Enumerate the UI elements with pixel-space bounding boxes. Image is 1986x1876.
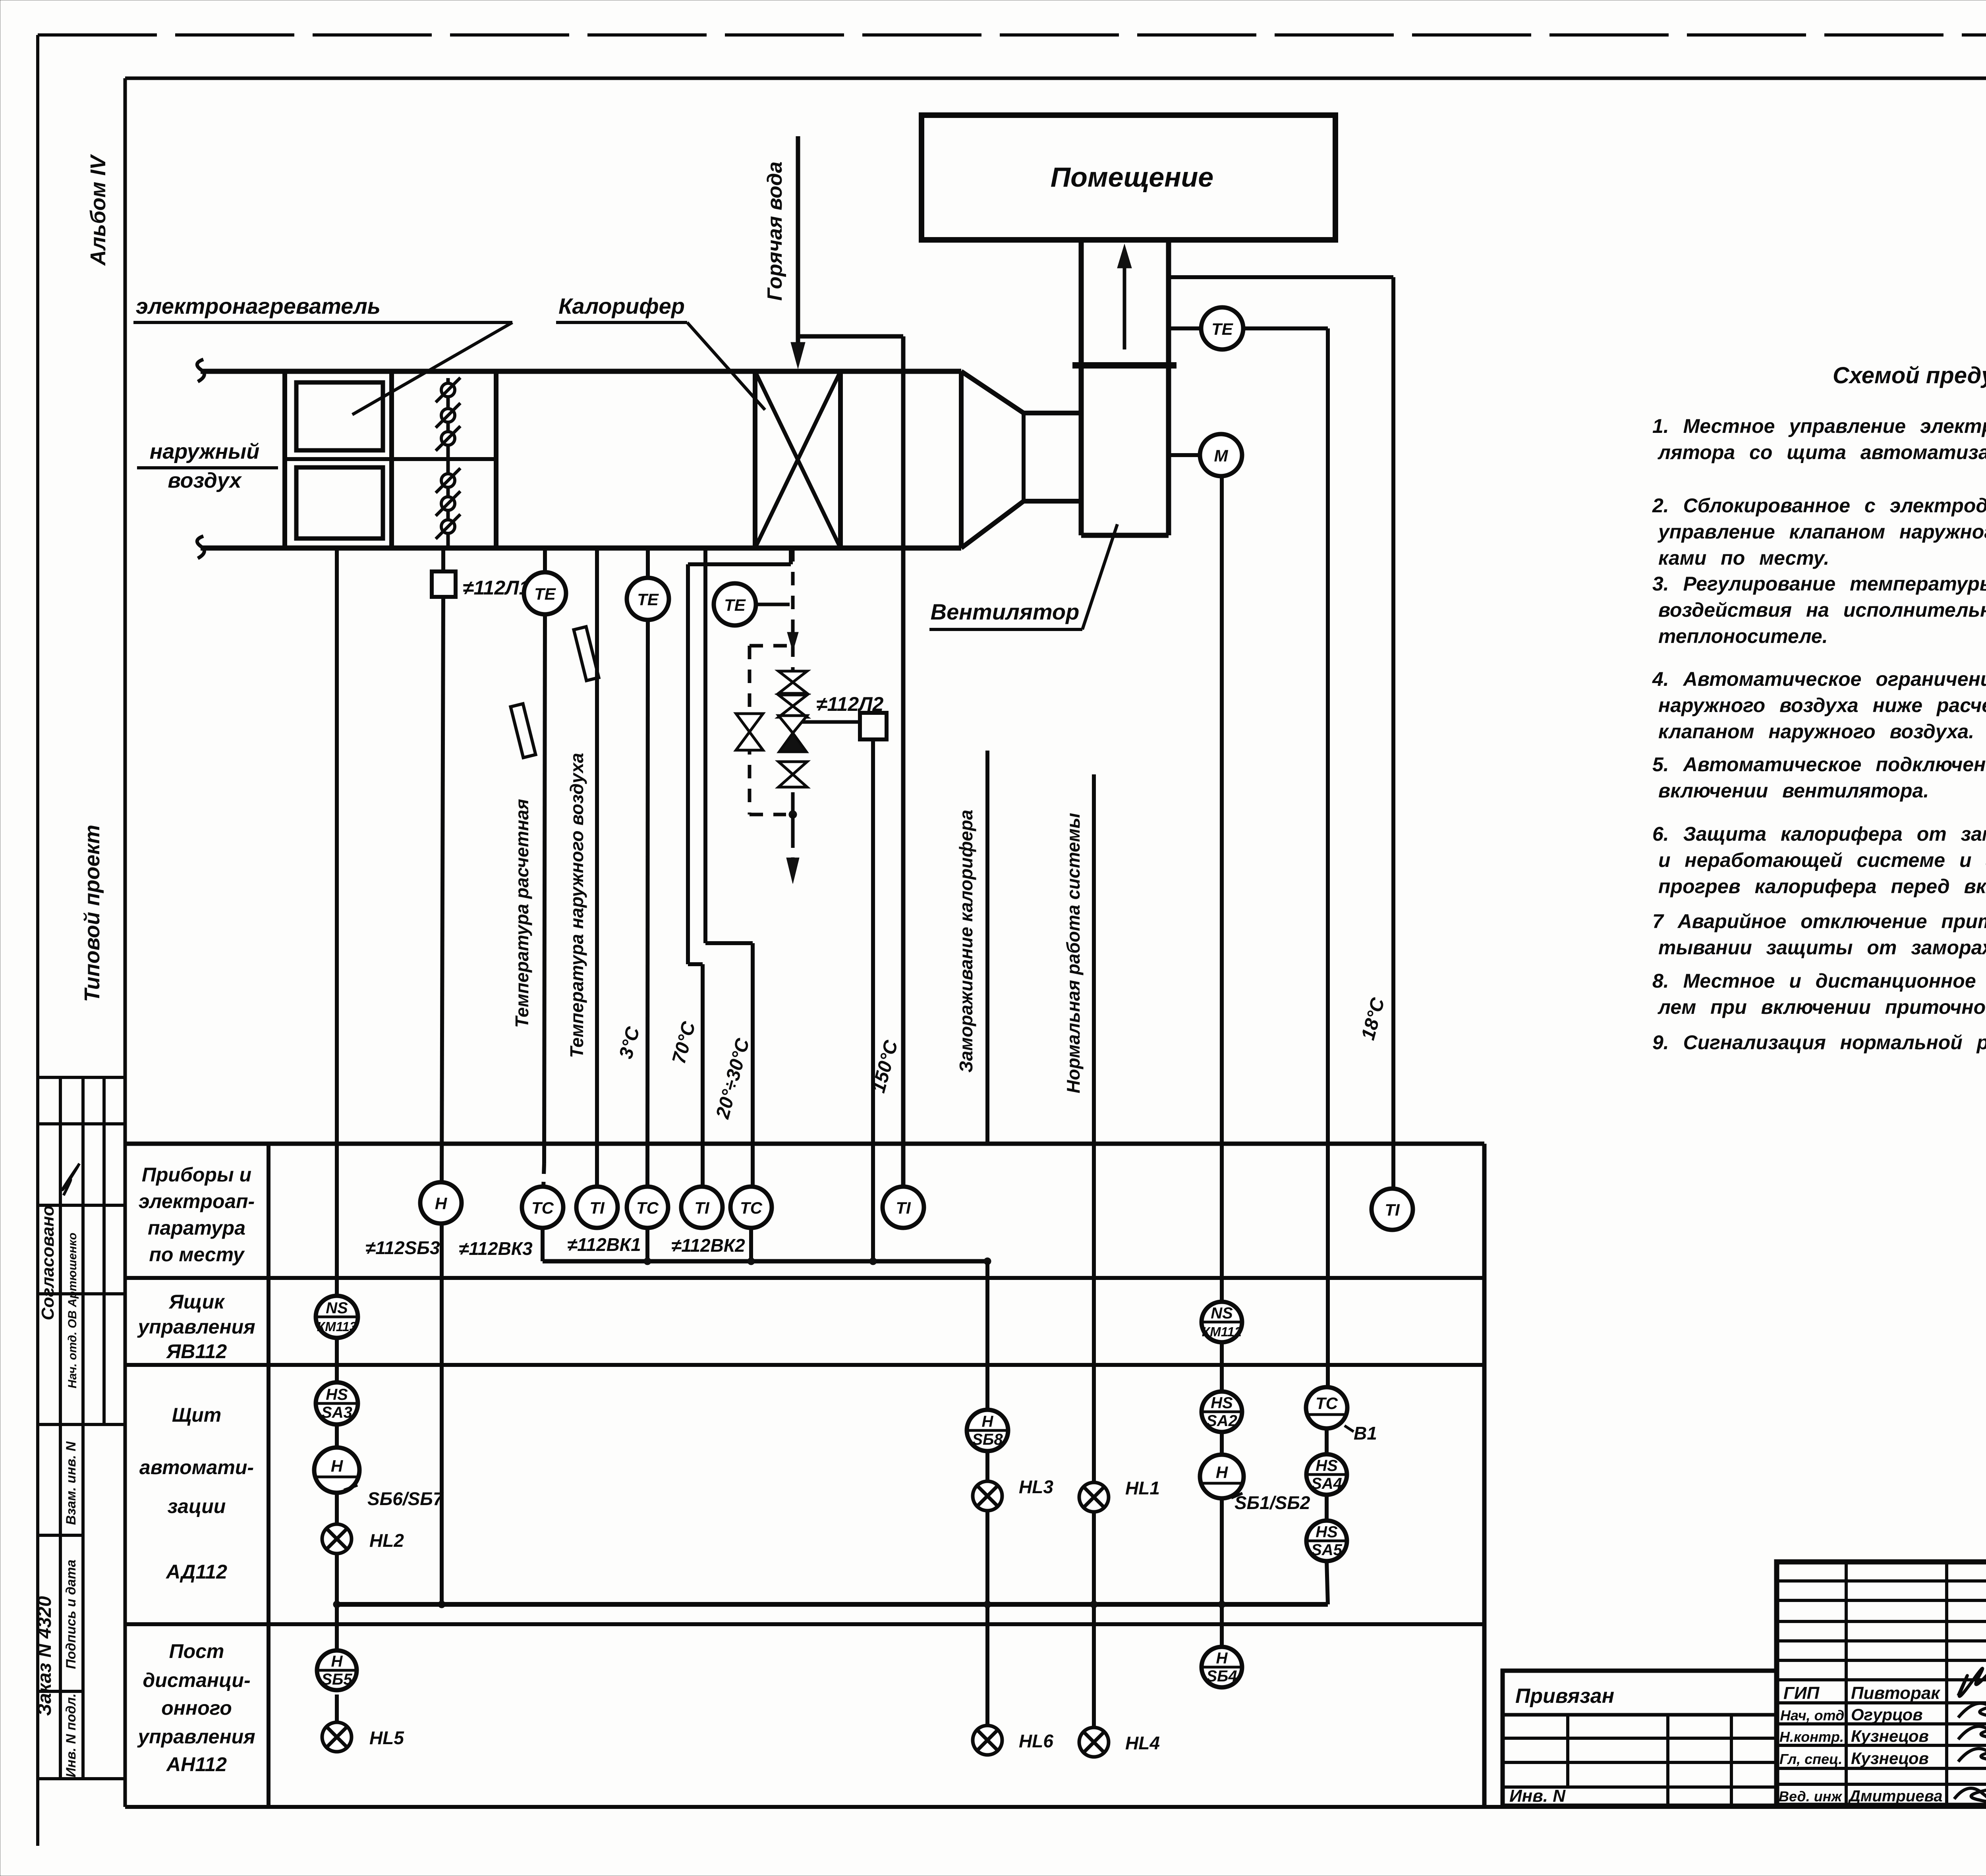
lamp HL1 (1079, 1482, 1109, 1512)
damper blade symbol 1 (436, 378, 460, 402)
duct end wall before fan (959, 371, 964, 548)
room (Pomeshchenie) box (922, 115, 1335, 240)
title grid line (1777, 1701, 1986, 1704)
air damper axis line (446, 378, 450, 548)
sensor TE1 (design temperature) (524, 572, 566, 614)
main bus junction (438, 1601, 445, 1608)
row line 2-3 (125, 1363, 1484, 1367)
main bus left junction (333, 1601, 340, 1608)
buttons H SB1/SB2 (1200, 1455, 1244, 1498)
fan inlet cone end (1022, 413, 1026, 501)
chord for H SB1/SB2 (1201, 1482, 1243, 1485)
svg-text:дистанци-: дистанци- (143, 1669, 250, 1691)
svg-text:HS: HS (1316, 1523, 1338, 1541)
electric heater element lower (296, 467, 383, 538)
normal work line (1092, 1144, 1096, 1482)
svg-text:SБ8: SБ8 (972, 1431, 1003, 1448)
TE1 dashed tail (543, 1164, 544, 1187)
starter NS KM112 (1202, 1302, 1242, 1342)
svg-text:Дмитриева: Дмитриева (1848, 1787, 1942, 1805)
svg-text:ками по месту.: ками по месту. (1658, 547, 1829, 569)
sheet outer left border (36, 35, 39, 1846)
svg-text:Н.контр.: Н.контр. (1779, 1729, 1844, 1745)
svg-text:Нач. отд. ОВ Артюшенко: Нач. отд. ОВ Артюшенко (66, 1233, 79, 1388)
svg-text:Н: Н (331, 1457, 344, 1475)
svg-text:автомати-: автомати- (139, 1456, 254, 1478)
svg-text:управление клапаном наружн: управление клапаном наружного воздуха и … (1657, 521, 1986, 543)
duct top wall (201, 369, 961, 374)
svg-text:ТС: ТС (740, 1199, 763, 1217)
svg-text:≠112ВК3: ≠112ВК3 (459, 1238, 533, 1259)
electric heater casing (285, 371, 392, 548)
lamp HL5 (322, 1722, 352, 1752)
fan motor M (1200, 434, 1242, 476)
svg-text:4. Автоматическое ограничение: 4. Автоматическое ограничение расхода те… (1652, 668, 1986, 690)
svg-text:7 Аварийное отключение прит: 7 Аварийное отключение приточного вентил… (1652, 910, 1986, 932)
svg-text:Заказ N 4320: Заказ N 4320 (34, 1596, 55, 1716)
svg-text:9. Сигнализация нормальной р: 9. Сигнализация нормальной работы приточ… (1652, 1031, 1986, 1054)
TE2 line down (647, 620, 648, 1186)
table label column divider (267, 1144, 270, 1807)
svg-text:Схемой предусматривается:: Схемой предусматривается: (1833, 363, 1986, 388)
switch HS SA3 (316, 1382, 358, 1424)
title grid line (1777, 1783, 1986, 1786)
underline elektronagrevatel (133, 321, 512, 324)
button H SB5 (317, 1650, 357, 1690)
thermostat TC 112BK1 (627, 1187, 668, 1228)
valve V2 (779, 695, 807, 717)
title grid line (1777, 1579, 1986, 1583)
manifold outlet dashed arrow (791, 836, 795, 864)
svg-text:прогрев калорифера перед вк: прогрев калорифера перед включением вент… (1658, 875, 1986, 897)
electric heater control line down (335, 548, 339, 1296)
svg-text:Инв. N подл.: Инв. N подл. (64, 1693, 79, 1778)
inner frame top (125, 77, 1986, 80)
leader Ventilyator (1082, 524, 1117, 629)
svg-text:Помещение: Помещение (1051, 162, 1213, 193)
svg-text:включении вентилятора.: включении вентилятора. (1658, 780, 1929, 802)
svg-text:Ящик: Ящик (168, 1291, 225, 1313)
svg-text:HL6: HL6 (1019, 1731, 1053, 1751)
svg-text:SБ1/SБ2: SБ1/SБ2 (1234, 1492, 1310, 1513)
title block main frame (1777, 1562, 1986, 1805)
title grid line (1777, 1722, 1986, 1725)
dashed line arrowhead (787, 632, 798, 651)
leader SB6/SB7 (344, 1485, 357, 1490)
svg-text:клапаном наружного воздуха.: клапаном наружного воздуха. (1658, 720, 1974, 743)
control valve with actuator (779, 716, 807, 733)
svg-text:SБ5: SБ5 (321, 1671, 352, 1688)
main horizontal bus (337, 1602, 1328, 1607)
svg-text:5. Автоматическое подключени: 5. Автоматическое подключение системы ре… (1652, 753, 1986, 776)
fan inlet duct top (1024, 411, 1081, 415)
svg-text:≠112ВК1: ≠112ВК1 (567, 1234, 641, 1255)
svg-text:1. Местное управление электр: 1. Местное управление электродвигателем … (1652, 415, 1986, 437)
stamp grid line (38, 1534, 83, 1537)
20-30C jog (705, 941, 753, 945)
svg-text:воздух: воздух (168, 469, 242, 492)
thermometer TI 150C (883, 1187, 924, 1228)
svg-text:Н: Н (1216, 1463, 1229, 1482)
leader SB1/SB2 (1231, 1493, 1242, 1498)
stamp grid divider (81, 1424, 85, 1779)
bypass top dashed (750, 644, 793, 648)
svg-text:теплоносителе.: теплоносителе. (1658, 625, 1828, 647)
lamp HL4 (1079, 1727, 1109, 1757)
svg-text:лем при включении приточно: лем при включении приточного вентилятора… (1658, 996, 1986, 1018)
title grid line (1777, 1659, 1986, 1662)
leader Kalorifer (687, 322, 765, 410)
title grid line (1777, 1639, 1986, 1642)
pushbutton H 112SB3 (420, 1182, 462, 1224)
motor control line down (1220, 476, 1224, 1302)
svg-text:Н: Н (435, 1194, 448, 1213)
stamp grid line (38, 1292, 125, 1295)
stamp grid line (38, 1777, 125, 1780)
svg-text:8. Местное и дистанционное: 8. Местное и дистанционное управление эл… (1652, 970, 1986, 992)
title grid line (1777, 1599, 1986, 1602)
112SB3 line to main bus (440, 1224, 444, 1604)
TE room line down to TC B1 (1326, 328, 1330, 1387)
svg-text:Нач, отд: Нач, отд (1780, 1707, 1844, 1724)
20-30C vertical 2 (751, 943, 755, 1186)
svg-text:SA2: SA2 (1206, 1412, 1237, 1430)
svg-text:Калорифер: Калорифер (558, 293, 685, 318)
wire TE to drop (1243, 326, 1328, 330)
stamp grid line (38, 1076, 125, 1079)
electric heater element upper (296, 382, 383, 450)
valve V1 (779, 671, 807, 693)
underline naruzhny (137, 466, 278, 469)
damper blade symbol 2 (436, 403, 460, 428)
svg-text:ТI: ТI (694, 1199, 710, 1217)
title grid divider (1845, 1562, 1848, 1805)
outdoor air temp line (595, 548, 599, 1186)
svg-text:Вентилятор: Вентилятор (931, 599, 1080, 624)
leader B1 (1345, 1426, 1354, 1432)
svg-text:HL4: HL4 (1125, 1733, 1160, 1753)
stamp grid divider (81, 1077, 85, 1424)
wire (335, 1338, 339, 1382)
freeze column line / underline (985, 751, 989, 1144)
svg-text:Согласовано: Согласовано (38, 1205, 58, 1320)
fan inlet cone top (961, 371, 1024, 413)
bus corner junction (984, 1258, 991, 1265)
svg-text:Привязан: Привязан (1515, 1685, 1614, 1708)
stamp grid line (38, 1423, 125, 1426)
sheet outer top border (dashed scan) (38, 33, 1986, 37)
svg-text:Замораживание калорифера: Замораживание калорифера (956, 810, 976, 1073)
70C vertical (686, 564, 690, 964)
svg-text:NS: NS (1211, 1305, 1233, 1322)
wire (1220, 1432, 1224, 1455)
title grid divider (1945, 1562, 1948, 1805)
stamp grid divider (59, 1077, 62, 1424)
control line duct to valve manifold (dashed) (791, 548, 795, 672)
svg-text:≠112Л1: ≠112Л1 (463, 577, 530, 599)
svg-text:АН112: АН112 (166, 1753, 227, 1776)
svg-text:ТЕ: ТЕ (637, 590, 659, 609)
underline Kalorifer (556, 321, 687, 324)
svg-text:Пивторак: Пивторак (1851, 1683, 1941, 1703)
svg-text:В1: В1 (1354, 1423, 1377, 1444)
svg-text:Гл, спец.: Гл, спец. (1779, 1751, 1842, 1767)
drop to TE1 (543, 548, 547, 572)
fan casing bottom (1081, 533, 1169, 538)
svg-text:ЯВ112: ЯВ112 (166, 1340, 227, 1363)
kalorifer right wall (838, 371, 843, 548)
svg-text:NS: NS (326, 1299, 348, 1317)
bypass dashed line (748, 646, 752, 814)
duct mid divider line (285, 457, 496, 461)
lamp HL6 (973, 1725, 1002, 1755)
row line 3-4 (125, 1622, 1484, 1626)
drop to 112L1 box (441, 548, 445, 571)
70C horizontal jog (688, 562, 791, 566)
box 112L2 (actuator) (860, 713, 887, 739)
manifold tail 2 (791, 814, 795, 836)
svg-text:Кузнецов: Кузнецов (1851, 1727, 1929, 1745)
svg-text:ТI: ТI (896, 1199, 911, 1217)
bus junction 112L2 (869, 1258, 877, 1265)
svg-text:2. Сблокированное с электрод: 2. Сблокированное с электродвигателем пр… (1652, 494, 1986, 517)
damper blade symbol 3 (436, 426, 460, 451)
row1 collecting bus (543, 1259, 987, 1264)
wire (1325, 1428, 1329, 1454)
svg-text:HS: HS (326, 1386, 348, 1403)
svg-text:HS: HS (1211, 1394, 1233, 1412)
switch HS SA2 (1202, 1392, 1242, 1432)
wire (1220, 1342, 1224, 1392)
underline Ventilyator (929, 628, 1082, 631)
svg-text:КМ112: КМ112 (1202, 1324, 1242, 1339)
hot water supply arrow line (796, 136, 800, 349)
svg-text:АД112: АД112 (165, 1561, 227, 1583)
svg-text:наружного воздуха ниже расч: наружного воздуха ниже расчетной минимал… (1658, 694, 1986, 716)
svg-text:ТЕ: ТЕ (534, 585, 556, 603)
controller TC B1 (1306, 1387, 1347, 1428)
wire (1325, 1495, 1329, 1521)
wire (335, 1695, 339, 1722)
duct break squiggle bottom-left (197, 536, 204, 558)
svg-text:HL1: HL1 (1125, 1478, 1160, 1498)
duct break squiggle top-left (197, 359, 204, 382)
svg-text:SБ4: SБ4 (1206, 1668, 1237, 1685)
70C stub from duct (789, 548, 793, 564)
svg-text:Приборы и: Приборы и (142, 1164, 251, 1186)
fan casing / outlet duct right wall (1166, 238, 1171, 535)
svg-text:SA4: SA4 (1311, 1475, 1342, 1492)
svg-text:Взам. инв. N: Взам. инв. N (64, 1441, 79, 1525)
air flow arrow in outlet duct (1123, 258, 1126, 349)
duct section boundary (494, 371, 498, 548)
kalorifer cross stroke 1 (755, 371, 840, 548)
svg-text:воздействия на исполнительн: воздействия на исполнительный механизм к… (1658, 599, 1986, 621)
112L1 line down to H (442, 597, 443, 1182)
wire (335, 1424, 339, 1448)
svg-text:Кузнецов: Кузнецов (1851, 1749, 1929, 1768)
svg-text:наружный: наружный (150, 440, 259, 463)
20-30C line from duct (703, 548, 707, 943)
stub TC 112BK3 to bus (541, 1228, 545, 1261)
svg-text:ТЕ: ТЕ (1211, 320, 1234, 338)
row line 1-2 (125, 1276, 1484, 1280)
svg-text:М: М (1214, 446, 1229, 465)
svg-text:Вед. инж: Вед. инж (1779, 1788, 1843, 1805)
svg-text:ТС: ТС (1316, 1394, 1338, 1413)
main bus junction (984, 1601, 991, 1608)
slanted plate mark 1 (574, 627, 599, 681)
air outlet temp wire top run (1169, 275, 1393, 279)
button H SB6/SB7 (314, 1448, 359, 1493)
wire to bus and SB5 (335, 1554, 339, 1656)
bypass valve (736, 714, 763, 750)
stamp grid divider (59, 1424, 62, 1779)
sensor TE room outlet (1201, 307, 1243, 349)
svg-text:ТС: ТС (636, 1199, 659, 1217)
svg-text:Н: Н (1216, 1650, 1228, 1667)
svg-text:Типовой проект: Типовой проект (80, 825, 104, 1002)
title grid line (1777, 1744, 1986, 1747)
svg-text:ТС: ТС (531, 1199, 554, 1217)
wire down through bus (1092, 1512, 1096, 1727)
stub TC 112BK1 to bus (645, 1228, 649, 1261)
signatures squiggles (1958, 1668, 1986, 1696)
svg-text:паратура: паратура (148, 1217, 245, 1239)
wire (985, 1451, 989, 1481)
lamp HL3 (973, 1481, 1002, 1511)
slanted plate mark 2 (511, 704, 536, 758)
title grid line (1777, 1620, 1986, 1623)
signature squiggle (62, 1164, 79, 1195)
switch HS SA5 (1306, 1521, 1347, 1561)
kalorifer left wall (753, 371, 757, 548)
inner frame bottom (125, 1805, 1986, 1809)
svg-text:≠112ВК2: ≠112ВК2 (671, 1235, 745, 1256)
svg-text:3. Регулирование температуры: 3. Регулирование температуры приточного … (1652, 573, 1986, 595)
button H SB8 (967, 1410, 1008, 1451)
bus junction (644, 1258, 651, 1265)
table right edge (1482, 1144, 1487, 1807)
svg-text:Н: Н (331, 1653, 343, 1670)
svg-text:Температура расчетная: Температура расчетная (512, 799, 532, 1028)
70C vertical 2 (701, 964, 705, 1186)
damper blade symbol 5 (436, 491, 460, 516)
normal work column line / underline (1092, 774, 1096, 1144)
fan casing / outlet duct left wall (1079, 238, 1084, 535)
hot water top run (798, 334, 903, 339)
svg-text:ТI: ТI (1385, 1200, 1400, 1219)
wire to main bus end (1327, 1561, 1328, 1604)
fan outlet flange (1072, 362, 1177, 369)
svg-text:Н: Н (982, 1413, 994, 1430)
leader elektronagrevatel (352, 322, 512, 415)
main bus junction (1090, 1601, 1097, 1608)
wire duct to TE room (1169, 326, 1201, 330)
svg-text:SA3: SA3 (321, 1404, 352, 1421)
svg-text:Нормальная работа системы: Нормальная работа системы (1063, 813, 1084, 1093)
svg-text:Горячая вода: Горячая вода (763, 162, 786, 301)
switch HS SA4 (1306, 1454, 1347, 1495)
thermometer TI 18C (1372, 1189, 1413, 1230)
svg-text:Пост: Пост (169, 1640, 224, 1662)
stub TC 112BK2 to bus (749, 1228, 753, 1261)
link valve to 112L2 box (802, 720, 860, 724)
svg-text:ГИП: ГИП (1783, 1683, 1820, 1703)
svg-text:≠112SБ3: ≠112SБ3 (365, 1237, 440, 1258)
stamp grid divider (102, 1077, 106, 1424)
hot water drop pipe to TI (150C) (901, 336, 906, 1186)
wire (335, 1493, 339, 1524)
TE1 line down (544, 614, 545, 1164)
svg-text:и неработающей системе и а: и неработающей системе и автоматический … (1658, 849, 1986, 871)
thermostat TC 112BK3 (522, 1187, 563, 1228)
svg-text:HS: HS (1316, 1457, 1338, 1475)
svg-text:≠112Л2: ≠112Л2 (816, 693, 884, 715)
svg-text:лятора со щита автоматизации: лятора со щита автоматизации и дистанцио… (1658, 441, 1986, 463)
manifold tail (791, 792, 795, 814)
title grid line (1777, 1678, 1986, 1681)
stamp grid line (38, 1122, 125, 1125)
button H SB4 (1202, 1647, 1242, 1687)
svg-text:электроап-: электроап- (139, 1190, 255, 1212)
drop to TE2 (646, 548, 650, 578)
wire duct to M (1169, 453, 1200, 457)
wire down through bus (1220, 1498, 1224, 1646)
svg-text:Огурцов: Огурцов (1851, 1705, 1923, 1724)
inner frame left (124, 78, 127, 1807)
svg-text:управления: управления (137, 1725, 255, 1748)
duct bottom wall (201, 546, 961, 551)
title grid line (1777, 1767, 1986, 1770)
svg-text:Инв. N: Инв. N (1509, 1786, 1566, 1806)
thermostat TC 112BK2 (730, 1187, 772, 1228)
TE3 wire to control line (756, 603, 790, 606)
lamp HL2 (322, 1524, 352, 1554)
70C jog (688, 962, 703, 966)
stamp grid line (38, 1204, 125, 1207)
table top line (125, 1142, 1484, 1146)
svg-text:Щит: Щит (172, 1404, 221, 1426)
freeze chain down from bus (985, 1261, 989, 1409)
svg-text:онного: онного (161, 1697, 232, 1719)
sensor TE3 (20-30C) (714, 583, 756, 625)
damper blade symbol 6 (436, 514, 460, 539)
main bus junction (1218, 1601, 1225, 1608)
svg-text:SA5: SA5 (1311, 1541, 1343, 1559)
bypass bottom dashed (750, 813, 786, 816)
fan inlet duct bottom (1024, 499, 1081, 504)
112L2 feedback line down to bus (871, 739, 875, 1261)
svg-text:Подпись и дата: Подпись и дата (64, 1559, 79, 1669)
svg-text:Альбом IV: Альбом IV (86, 154, 110, 266)
kalorifer cross stroke 2 (755, 371, 840, 548)
stamp grid line (38, 1690, 83, 1693)
svg-text:HL2: HL2 (369, 1530, 404, 1551)
svg-text:зации: зации (168, 1495, 226, 1517)
svg-text:HL5: HL5 (369, 1727, 404, 1748)
svg-text:HL3: HL3 (1019, 1476, 1053, 1497)
manifold junction (789, 811, 797, 818)
sensor TE2 (3C) (627, 578, 669, 620)
thermometer TI 2 (681, 1187, 723, 1228)
starter NS KM113 (316, 1296, 358, 1338)
box 112L1 (432, 571, 456, 597)
svg-text:по месту: по месту (149, 1243, 245, 1266)
damper blade symbol 4 (436, 468, 460, 493)
svg-text:6. Защита калорифера от зам: 6. Защита калорифера от замораживания пр… (1652, 823, 1986, 845)
svg-text:Температура наружного воздуха: Температура наружного воздуха (566, 753, 587, 1058)
